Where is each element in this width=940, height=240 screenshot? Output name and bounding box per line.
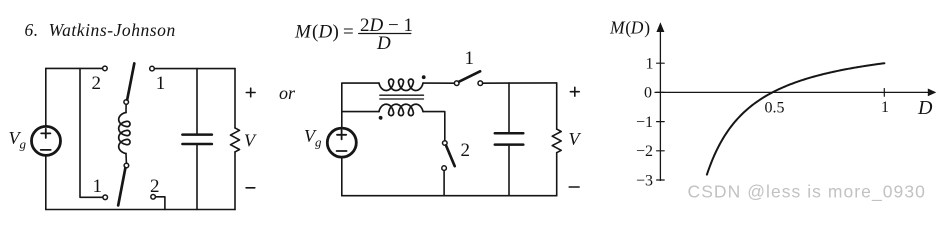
switch 1 blade bbox=[459, 71, 480, 81]
wire: upper winding to switch 1 bbox=[423, 82, 454, 84]
wire: load branch bottom (left circuit) bbox=[234, 152, 236, 210]
wire: switch 2 to bottom rail bbox=[443, 170, 445, 195]
transformer upper winding bbox=[379, 79, 423, 90]
svg-text:or: or bbox=[279, 83, 296, 103]
wire: capacitor branch top (left circuit) bbox=[196, 69, 198, 134]
wire: left circuit bottom rail bbox=[46, 209, 235, 211]
wire: middle circuit left rail bottom bbox=[341, 158, 343, 196]
graph y tick M=-1 bbox=[657, 121, 665, 123]
inductor (left circuit, vertical) bbox=[125, 104, 127, 112]
wire: lower winding to switch 2 bbox=[423, 112, 445, 141]
svg-text:1: 1 bbox=[156, 73, 166, 94]
svg-text:(: ( bbox=[312, 22, 318, 43]
svg-text:D: D bbox=[376, 33, 391, 54]
label minus (middle circuit) bbox=[569, 186, 579, 188]
switch 1 terminal left bbox=[454, 81, 459, 86]
wire: left circuit left rail bottom bbox=[45, 157, 47, 210]
wire: load branch top (left circuit) bbox=[234, 69, 236, 128]
svg-text:2: 2 bbox=[150, 176, 160, 197]
graph curve M(D)=(2D-1)/D bbox=[707, 63, 884, 174]
graph y tick M=1 bbox=[657, 62, 665, 64]
wire: branch from top rail down to bottom throw 1 bbox=[80, 68, 103, 197]
switch blade (bottom SPDT, left circuit) bbox=[118, 168, 125, 206]
svg-text:1: 1 bbox=[465, 48, 475, 69]
source Vg (middle circuit) bbox=[327, 128, 356, 157]
throw terminal 2 (bottom right) bbox=[151, 195, 156, 200]
graph y-axis arrowhead bbox=[656, 22, 664, 32]
wire: left circuit left rail top bbox=[45, 68, 47, 125]
svg-text:M: M bbox=[609, 18, 626, 38]
graph x-axis arrowhead bbox=[928, 89, 937, 97]
wire: middle circuit left rail top bbox=[342, 83, 379, 127]
svg-text:V: V bbox=[244, 130, 257, 150]
throw terminal 1 (bottom left) bbox=[103, 195, 108, 200]
label + (left circuit) bbox=[246, 92, 255, 94]
svg-text:Vg: Vg bbox=[9, 128, 27, 152]
resistor / load V (left circuit) bbox=[231, 128, 240, 152]
svg-text:): ) bbox=[333, 22, 339, 43]
switch pole terminal (top, on inductor) bbox=[124, 100, 129, 105]
wire: capacitor branch bottom (left circuit) bbox=[196, 145, 198, 209]
svg-text:2: 2 bbox=[461, 140, 471, 161]
svg-text:1: 1 bbox=[881, 99, 889, 116]
graph x tick D=1 bbox=[883, 89, 885, 97]
label + (middle circuit) bbox=[570, 91, 579, 93]
wire: top rail from throw 1 to output bbox=[154, 68, 235, 70]
switch blade (top SPDT, left circuit) bbox=[127, 63, 134, 99]
graph y-axis bbox=[659, 28, 661, 181]
graph x-axis bbox=[655, 91, 929, 93]
svg-text:1: 1 bbox=[646, 56, 654, 73]
switch 2 terminal bottom bbox=[442, 166, 447, 171]
graph y tick M=0 bbox=[657, 91, 665, 93]
label minus (left circuit) bbox=[246, 187, 255, 189]
svg-text:D: D bbox=[630, 18, 644, 38]
transformer core lines bbox=[380, 94, 424, 96]
wire: left circuit top rail bbox=[46, 67, 103, 69]
source Vg (left circuit) bbox=[32, 126, 61, 155]
svg-text:0: 0 bbox=[644, 85, 652, 102]
svg-text:−1: −1 bbox=[636, 114, 653, 131]
wire: load branch bottom (middle circuit) bbox=[556, 153, 558, 196]
svg-text:): ) bbox=[644, 18, 650, 38]
svg-text:Vg: Vg bbox=[304, 126, 322, 150]
capacitor C (left circuit) bbox=[182, 133, 212, 136]
switch 2 blade bbox=[446, 145, 455, 166]
transformer polarity dot (upper right) bbox=[422, 75, 426, 79]
graph y tick M=-2 bbox=[657, 150, 665, 152]
svg-text:V: V bbox=[569, 129, 582, 149]
svg-text:0.5: 0.5 bbox=[765, 100, 785, 117]
transformer polarity dot (lower left) bbox=[379, 116, 383, 120]
wire: switch 1 to output top rail bbox=[483, 82, 557, 84]
svg-text:−2: −2 bbox=[636, 143, 653, 160]
formula fraction bar bbox=[359, 33, 411, 35]
wire: bottom throw 2 to bottom rail bbox=[155, 197, 165, 210]
svg-text:M: M bbox=[294, 22, 312, 43]
switch 2 terminal top bbox=[443, 141, 448, 146]
transformer lower winding bbox=[379, 104, 423, 115]
switch pole terminal (bottom, on inductor) bbox=[124, 163, 129, 168]
wire: load branch top (middle circuit) bbox=[556, 83, 558, 129]
svg-text:6. Watkins-Johnson: 6. Watkins-Johnson bbox=[25, 20, 176, 40]
svg-text:2: 2 bbox=[92, 73, 102, 94]
svg-text:=: = bbox=[343, 22, 354, 43]
svg-text:1: 1 bbox=[93, 176, 103, 197]
capacitor C (middle circuit) bbox=[495, 132, 524, 135]
wire: middle circuit lower winding left lead bbox=[342, 111, 379, 113]
svg-text:D: D bbox=[318, 22, 333, 43]
svg-text:CSDN @less is more_0930: CSDN @less is more_0930 bbox=[688, 181, 926, 202]
wire: capacitor branch bottom (middle circuit) bbox=[508, 146, 510, 196]
wire: middle circuit bottom rail bbox=[342, 195, 557, 197]
graph y tick M=-3 bbox=[657, 179, 665, 181]
throw terminal 1 (top right) bbox=[150, 66, 155, 71]
wire: capacitor branch top (middle circuit) bbox=[508, 83, 510, 132]
resistor / load V (middle circuit) bbox=[552, 129, 561, 153]
svg-text:D: D bbox=[917, 97, 933, 119]
throw terminal 2 (top left) bbox=[103, 66, 108, 71]
switch 1 terminal right bbox=[478, 81, 483, 86]
svg-text:−3: −3 bbox=[636, 172, 653, 189]
